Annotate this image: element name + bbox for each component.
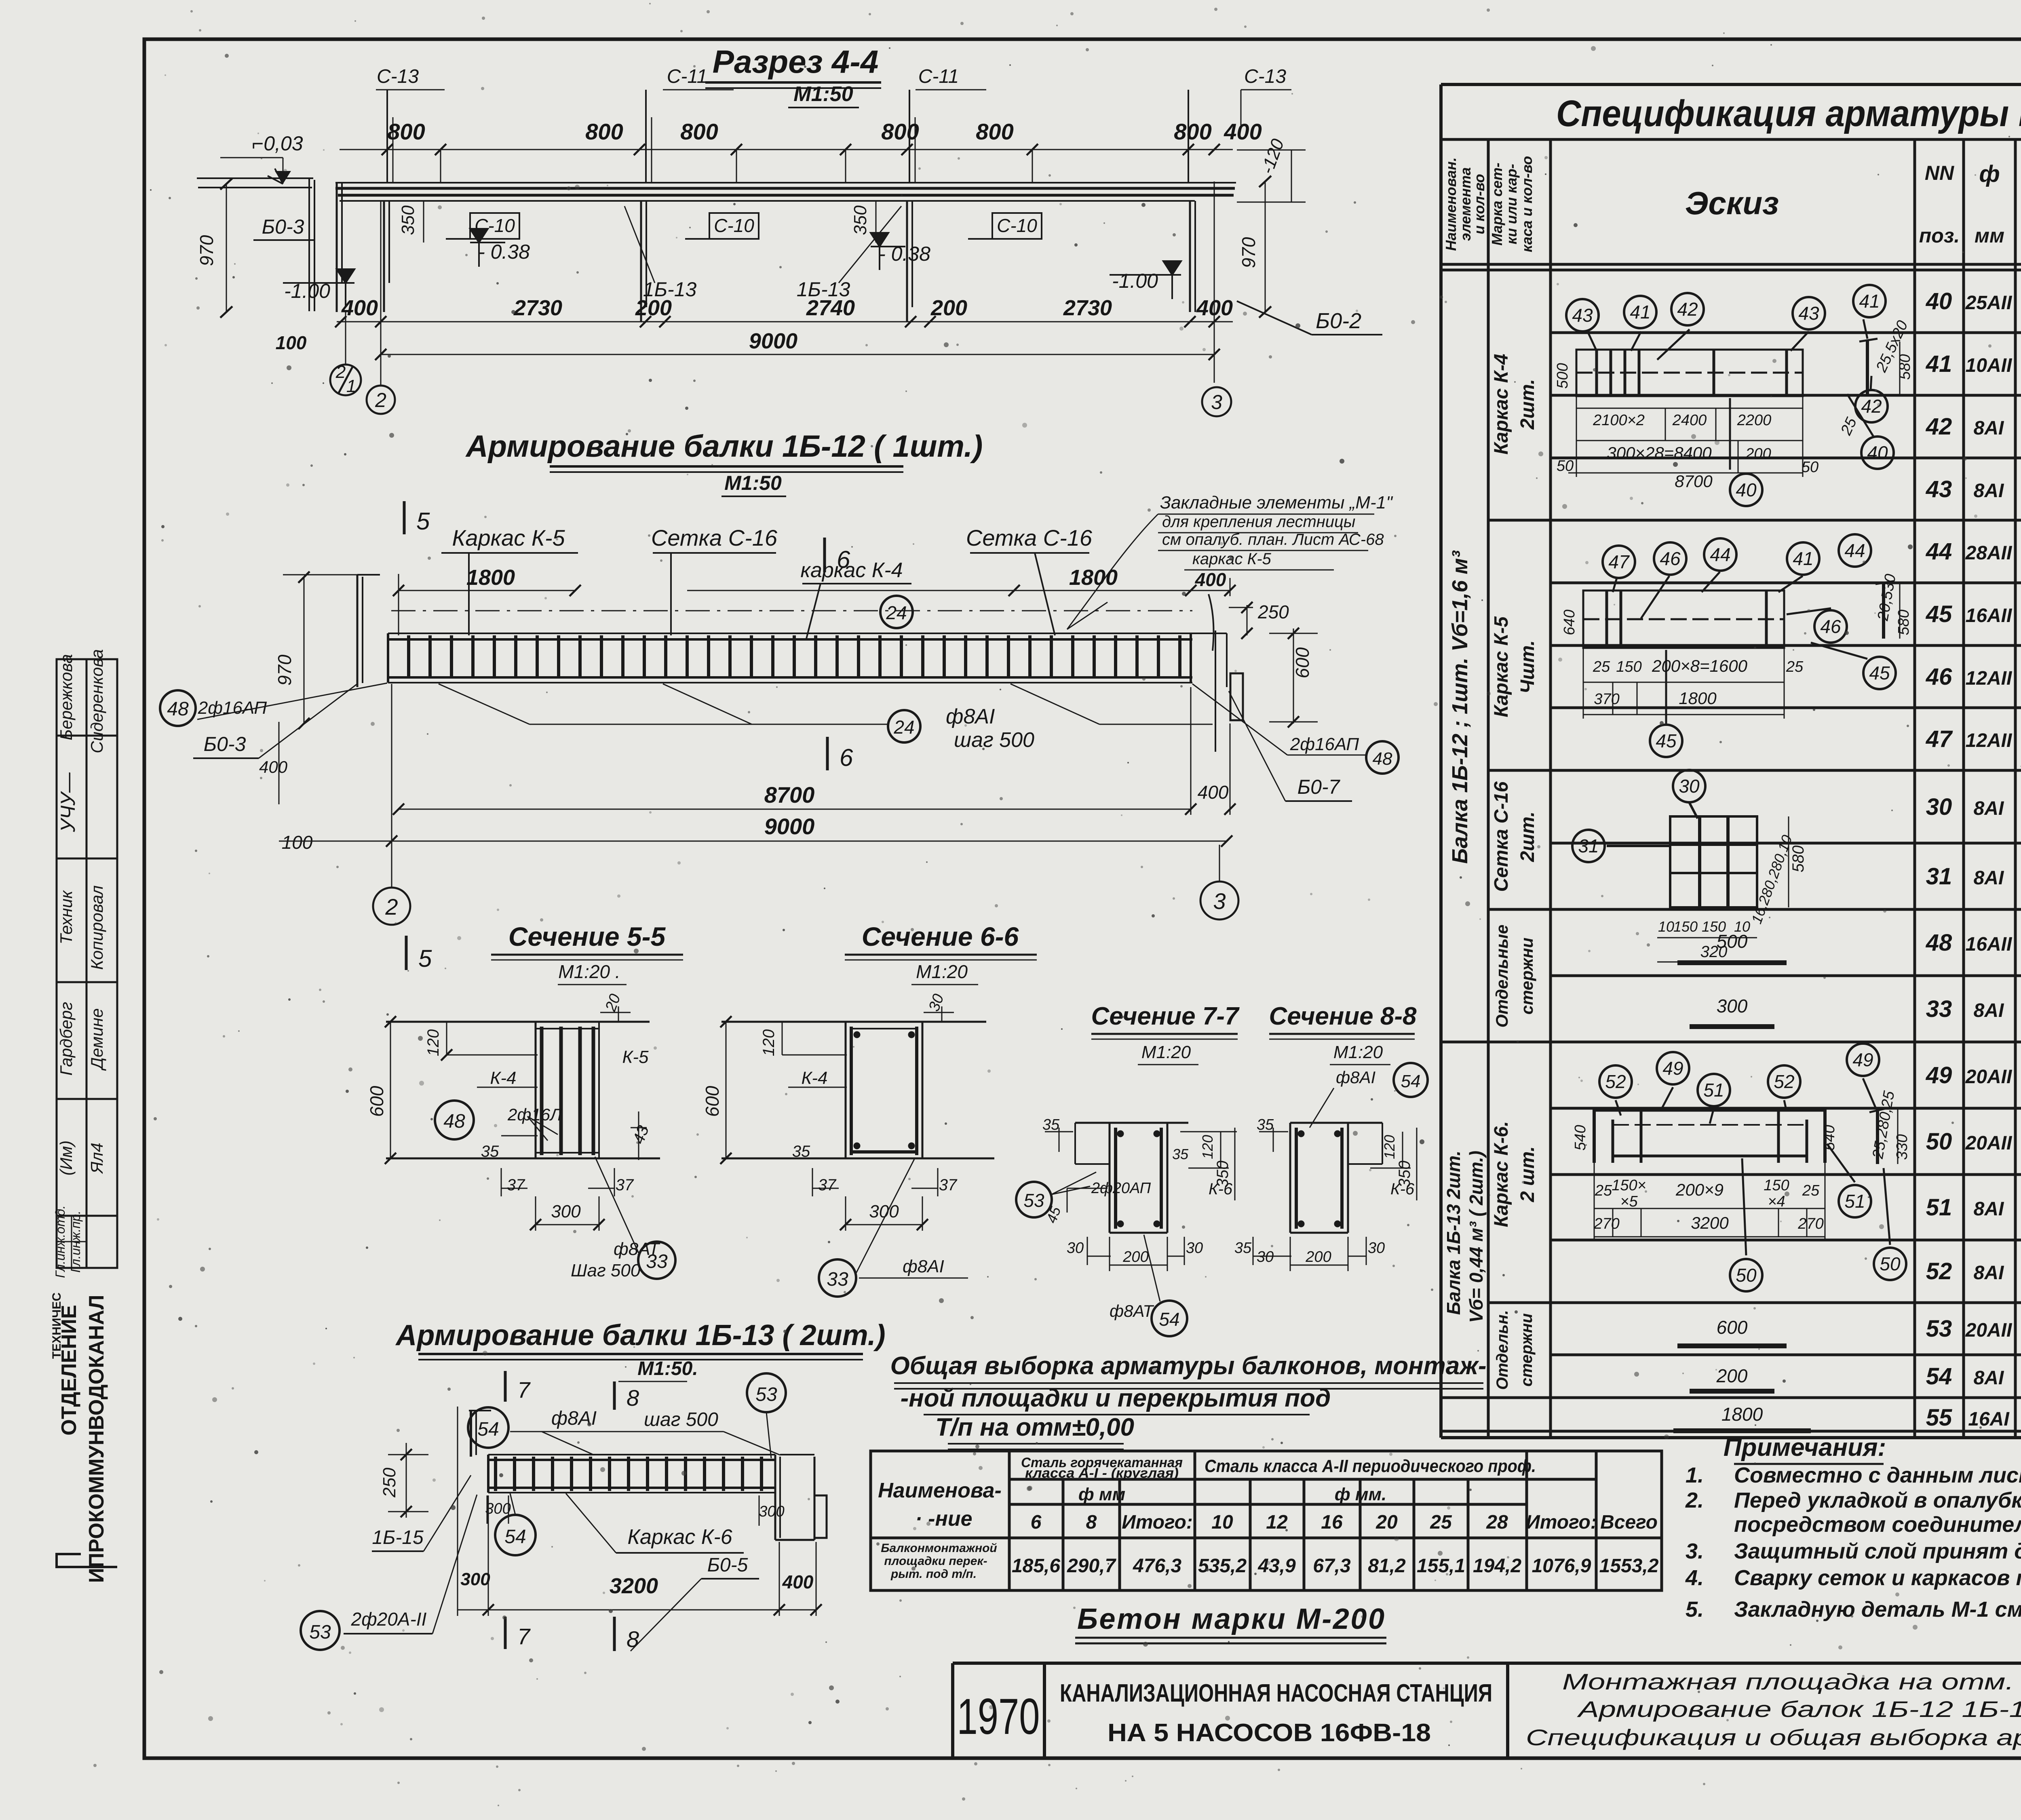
sketch K-5 dimensions bbox=[1561, 573, 1912, 708]
svg-text:600: 600 bbox=[702, 1086, 723, 1117]
svg-text:540: 540 bbox=[1821, 1125, 1838, 1150]
svg-text:Армирование балок 1Б-12 1Б-13: Армирование балок 1Б-12 1Б-13 bbox=[1577, 1696, 2021, 1722]
svg-text:Итого:: Итого: bbox=[1526, 1512, 1597, 1533]
svg-text:12: 12 bbox=[1266, 1512, 1288, 1533]
svg-text:КАНАЛИЗАЦИОННАЯ НАСОСНАЯ СТА: КАНАЛИЗАЦИОННАЯ НАСОСНАЯ СТАНЦИЯ bbox=[1060, 1679, 1492, 1707]
svg-text:51: 51 bbox=[1844, 1191, 1865, 1212]
sketch K-6 position circles bbox=[1599, 1044, 1906, 1291]
sketch C-16 dimensions bbox=[1658, 833, 1807, 961]
svg-text:класса А-I - (круглая): класса А-I - (круглая) bbox=[1025, 1466, 1179, 1481]
svg-text:44: 44 bbox=[1926, 538, 1952, 565]
svg-text:Vб= 0,44 м³ ( 2шт.): Vб= 0,44 м³ ( 2шт.) bbox=[1466, 1151, 1487, 1323]
svg-text:1553,2: 1553,2 bbox=[1599, 1555, 1659, 1577]
svg-text:Гардберг: Гардберг bbox=[57, 1002, 76, 1076]
svg-text:10: 10 bbox=[1658, 918, 1674, 935]
sketch mesh C-16 bbox=[1607, 802, 1757, 907]
svg-text:200: 200 bbox=[635, 296, 672, 320]
svg-text:540: 540 bbox=[1572, 1125, 1589, 1150]
svg-text:49: 49 bbox=[1852, 1049, 1873, 1070]
svg-text:50: 50 bbox=[1736, 1265, 1757, 1286]
svg-text:25: 25 bbox=[1837, 415, 1861, 438]
svg-text:30: 30 bbox=[1257, 1248, 1274, 1265]
svg-text:400: 400 bbox=[1224, 119, 1262, 144]
svg-text:М1:20 .: М1:20 . bbox=[558, 961, 620, 982]
svg-text:300: 300 bbox=[551, 1202, 581, 1221]
svg-text:300×28=8400: 300×28=8400 bbox=[1607, 443, 1712, 462]
right end details bbox=[1209, 594, 1243, 752]
svg-text:2100×2: 2100×2 bbox=[1593, 412, 1645, 429]
specification table grid bbox=[1441, 84, 2021, 1438]
svg-text:рыт. под т/п.: рыт. под т/п. bbox=[890, 1567, 977, 1581]
svg-text:стержни: стержни bbox=[1517, 938, 1536, 1015]
svg-text:Каркас К-5: Каркас К-5 bbox=[452, 525, 565, 550]
svg-text:К-4: К-4 bbox=[490, 1068, 516, 1088]
svg-text:37: 37 bbox=[818, 1176, 837, 1194]
section markers 7 8 bottom bbox=[505, 1617, 614, 1651]
svg-text:М1:20: М1:20 bbox=[1141, 1042, 1191, 1062]
svg-text:Итого:: Итого: bbox=[1122, 1512, 1193, 1533]
svg-text:3: 3 bbox=[1211, 391, 1222, 413]
svg-text:350: 350 bbox=[1214, 1161, 1232, 1188]
svg-text:200: 200 bbox=[930, 296, 967, 320]
sketch frame K-5 bbox=[1583, 572, 1894, 723]
row group labels (rotated) bbox=[1443, 354, 1538, 1390]
svg-text:48: 48 bbox=[1373, 749, 1392, 769]
svg-text:каркас К-4: каркас К-4 bbox=[800, 559, 903, 582]
svg-text:8700: 8700 bbox=[764, 782, 815, 808]
svg-text:200: 200 bbox=[1305, 1248, 1331, 1265]
svg-text:500: 500 bbox=[1554, 363, 1571, 388]
svg-text:194,2: 194,2 bbox=[1473, 1555, 1521, 1577]
svg-text:31: 31 bbox=[1926, 863, 1952, 890]
svg-text:Гл.инж.отд.: Гл.инж.отд. bbox=[53, 1205, 68, 1278]
svg-text:250: 250 bbox=[1257, 601, 1289, 622]
svg-text:3200: 3200 bbox=[610, 1574, 658, 1598]
svg-text:25: 25 bbox=[1430, 1512, 1452, 1533]
svg-text:ки или кар-: ки или кар- bbox=[1503, 164, 1520, 244]
svg-text:- 0.38: - 0.38 bbox=[478, 240, 530, 263]
svg-text:370: 370 bbox=[1594, 691, 1619, 708]
svg-text:ф8АI: ф8АI bbox=[1336, 1068, 1375, 1087]
svg-text:2ф20А-II: 2ф20А-II bbox=[351, 1609, 427, 1630]
svg-text:46: 46 bbox=[1660, 548, 1681, 569]
position circle 54 (section 8-8 top) bbox=[1394, 1063, 1428, 1097]
svg-text:43: 43 bbox=[1926, 476, 1952, 502]
svg-text:×5: ×5 bbox=[1620, 1193, 1638, 1210]
svg-text:Наименован.: Наименован. bbox=[1443, 157, 1459, 251]
section 5-5 cut bbox=[386, 1022, 660, 1158]
svg-text:155,1: 155,1 bbox=[1417, 1555, 1465, 1577]
svg-text:Армирование балки 1Б-13 ( 2ш: Армирование балки 1Б-13 ( 2шт.) bbox=[395, 1319, 885, 1352]
svg-text:Демине: Демине bbox=[87, 1008, 106, 1071]
sketch K-4 dimensions bbox=[1554, 318, 1913, 491]
svg-text:53: 53 bbox=[1023, 1190, 1044, 1211]
svg-text:Сечение 6-6: Сечение 6-6 bbox=[862, 922, 1019, 951]
svg-text:1800: 1800 bbox=[1721, 1404, 1763, 1425]
svg-text:25: 25 bbox=[1802, 1182, 1820, 1199]
embedded parts note bbox=[1160, 493, 1393, 568]
svg-text:28: 28 bbox=[1486, 1512, 1508, 1533]
svg-text:20: 20 bbox=[1375, 1512, 1398, 1533]
svg-text:С-11: С-11 bbox=[918, 66, 959, 87]
svg-text:48: 48 bbox=[167, 698, 189, 720]
svg-text:640: 640 bbox=[1561, 609, 1578, 635]
svg-text:535,2: 535,2 bbox=[1198, 1555, 1247, 1577]
svg-text:52: 52 bbox=[1926, 1258, 1952, 1284]
bottom dimension line 300 3200 400 bbox=[458, 1407, 822, 1616]
svg-text:Каркас К-6.: Каркас К-6. bbox=[1491, 1121, 1512, 1227]
general steel take-off title bbox=[890, 1352, 1486, 1441]
svg-text:NN: NN bbox=[1925, 162, 1954, 184]
svg-text:120: 120 bbox=[760, 1029, 778, 1057]
svg-text:6: 6 bbox=[1031, 1512, 1042, 1533]
svg-text:×4: ×4 bbox=[1768, 1193, 1785, 1210]
svg-text:Каркас К-6: Каркас К-6 bbox=[627, 1525, 732, 1549]
svg-text:81,2: 81,2 bbox=[1368, 1555, 1406, 1577]
svg-text:8: 8 bbox=[627, 1385, 639, 1411]
specification table header bbox=[1443, 86, 2021, 266]
svg-text:поз.: поз. bbox=[1919, 224, 1960, 247]
sketch C-16 position circles bbox=[1572, 770, 1705, 862]
svg-text:50: 50 bbox=[1926, 1128, 1952, 1155]
svg-text:40: 40 bbox=[1867, 442, 1888, 463]
svg-text:800: 800 bbox=[585, 119, 623, 144]
svg-text:580: 580 bbox=[1895, 609, 1912, 635]
svg-text:Каркас К-4: Каркас К-4 bbox=[1491, 354, 1512, 454]
svg-text:-1.00: -1.00 bbox=[1112, 270, 1158, 292]
svg-text:300: 300 bbox=[485, 1500, 511, 1517]
svg-text:Общая выборка арматуры балконо: Общая выборка арматуры балконов, монтаж- bbox=[890, 1352, 1486, 1380]
svg-text:3200: 3200 bbox=[1691, 1213, 1729, 1232]
svg-text:стержни: стержни bbox=[1518, 1313, 1536, 1386]
svg-text:476,3: 476,3 bbox=[1133, 1555, 1181, 1577]
svg-text:43,9: 43,9 bbox=[1257, 1555, 1296, 1577]
section 8-8 dims bbox=[1253, 1128, 1417, 1271]
svg-text:45: 45 bbox=[1869, 662, 1890, 683]
svg-text:ф мм: ф мм bbox=[1078, 1485, 1125, 1504]
svg-text:30: 30 bbox=[1926, 794, 1952, 820]
svg-text:350: 350 bbox=[1396, 1161, 1413, 1188]
svg-text:1800: 1800 bbox=[1069, 565, 1118, 590]
svg-text:300: 300 bbox=[759, 1503, 784, 1520]
svg-text:50: 50 bbox=[1557, 458, 1574, 475]
svg-text:16АII: 16АII bbox=[1966, 934, 2013, 955]
svg-text:Защитный слой принят для б: Защитный слой принят для балок- 25мм, дл… bbox=[1734, 1539, 2021, 1563]
axis circles 2 3 (beam 1B-12) bbox=[373, 888, 410, 925]
left strip department rotated caption bbox=[50, 1293, 108, 1583]
svg-text:5: 5 bbox=[418, 945, 432, 972]
svg-text:Балка 1Б-12 ; 1шт. Vб=1,6 м³: Балка 1Б-12 ; 1шт. Vб=1,6 м³ bbox=[1448, 550, 1472, 864]
svg-text:2740: 2740 bbox=[806, 296, 855, 320]
svg-text:20АII: 20АII bbox=[1965, 1066, 2013, 1088]
svg-text:49: 49 bbox=[1926, 1062, 1952, 1088]
beam labels 1B-13 bbox=[643, 278, 850, 301]
svg-text:Армирование балки 1Б-12 ( 1шт.: Армирование балки 1Б-12 ( 1шт.) bbox=[465, 429, 983, 464]
frame and mesh labels bbox=[452, 525, 1093, 582]
svg-text:48: 48 bbox=[1926, 930, 1952, 956]
svg-text:25АII: 25АII bbox=[1965, 292, 2013, 314]
svg-text:50: 50 bbox=[1802, 459, 1818, 476]
svg-text:2ф20АП: 2ф20АП bbox=[1091, 1180, 1151, 1197]
svg-text:9000: 9000 bbox=[749, 329, 797, 353]
svg-text:9000: 9000 bbox=[764, 814, 815, 839]
svg-text:30: 30 bbox=[1067, 1240, 1084, 1257]
upper dimensions 1800 400 bbox=[393, 574, 1236, 635]
svg-text:33: 33 bbox=[827, 1269, 848, 1290]
section 4-4 beam slab lines bbox=[197, 90, 1236, 385]
position circle 53 lower + 2f20A-II bbox=[301, 1611, 340, 1650]
svg-text:ф8АТ: ф8АТ bbox=[1110, 1301, 1154, 1320]
svg-text:Всего: Всего bbox=[1600, 1512, 1658, 1533]
svg-text:ИПРОКОММУНВОДОКАНАЛ: ИПРОКОММУНВОДОКАНАЛ bbox=[85, 1295, 108, 1583]
svg-text:Б0-3: Б0-3 bbox=[204, 733, 246, 755]
position circles 53 54 (section 7-7) bbox=[1016, 1182, 1052, 1217]
svg-text:С-10: С-10 bbox=[714, 215, 754, 236]
svg-text:1800: 1800 bbox=[466, 565, 515, 590]
svg-text:35: 35 bbox=[1042, 1116, 1060, 1133]
notes list bbox=[1685, 1463, 2021, 1622]
svg-text:20АII: 20АII bbox=[1965, 1132, 2013, 1154]
position circle 54 lower bbox=[495, 1515, 536, 1555]
beam 1B-13 right step bbox=[775, 1455, 827, 1540]
svg-text:500: 500 bbox=[1717, 931, 1748, 952]
svg-text:12АII: 12АII bbox=[1966, 730, 2013, 751]
svg-text:200×9: 200×9 bbox=[1675, 1180, 1724, 1199]
svg-text:8АI: 8АI bbox=[1974, 480, 2004, 502]
svg-text:54: 54 bbox=[1926, 1363, 1952, 1390]
svg-text:Эскиз: Эскиз bbox=[1685, 185, 1779, 221]
title block object name bbox=[1060, 1679, 1492, 1747]
section 6-6 cut bbox=[721, 1022, 994, 1158]
svg-text:2730: 2730 bbox=[513, 296, 562, 320]
svg-text:25: 25 bbox=[1786, 658, 1804, 675]
mesh labels C-13 C-11 bbox=[377, 66, 1286, 87]
svg-text:35: 35 bbox=[1234, 1240, 1252, 1257]
svg-text:шаг 500: шаг 500 bbox=[954, 728, 1034, 752]
svg-text:400: 400 bbox=[1198, 782, 1229, 803]
svg-text:54: 54 bbox=[504, 1526, 526, 1548]
svg-text:150: 150 bbox=[1673, 918, 1698, 935]
svg-text:Бетон марки М-200: Бетон марки М-200 bbox=[1077, 1603, 1384, 1635]
svg-text:37: 37 bbox=[616, 1176, 634, 1194]
svg-text:6: 6 bbox=[840, 744, 853, 771]
beam 1B-12 left wall bbox=[357, 575, 380, 687]
svg-text:3.: 3. bbox=[1686, 1539, 1704, 1563]
svg-text:Сетка С-16: Сетка С-16 bbox=[1491, 781, 1512, 892]
svg-text:1076,9: 1076,9 bbox=[1532, 1555, 1591, 1577]
section 6-6 dims bbox=[720, 1006, 954, 1231]
svg-text:53: 53 bbox=[1926, 1316, 1952, 1342]
svg-text:800: 800 bbox=[680, 119, 718, 144]
svg-text:44: 44 bbox=[1710, 544, 1730, 565]
svg-text:5.: 5. bbox=[1686, 1597, 1704, 1622]
svg-text:52: 52 bbox=[1605, 1071, 1626, 1092]
svg-text:Сечение 8-8: Сечение 8-8 bbox=[1269, 1002, 1417, 1030]
position circles 54 53 top bbox=[468, 1407, 508, 1448]
svg-text:400: 400 bbox=[259, 757, 288, 776]
svg-text:150: 150 bbox=[1616, 658, 1641, 675]
svg-text:25: 25 bbox=[1595, 1182, 1612, 1199]
svg-text:Спецификация и общая выборк: Спецификация и общая выборка арматуры bbox=[1526, 1725, 2021, 1750]
left signature strip table bbox=[57, 659, 117, 1268]
svg-text:Гл.инж.пр.: Гл.инж.пр. bbox=[68, 1211, 83, 1273]
svg-text:· -ние: · -ние bbox=[915, 1507, 972, 1531]
svg-text:35: 35 bbox=[481, 1143, 499, 1160]
svg-text:2: 2 bbox=[375, 389, 386, 411]
svg-text:43: 43 bbox=[1798, 303, 1819, 324]
svg-text:С-13: С-13 bbox=[1244, 66, 1286, 87]
svg-text:Закладные элементы „М-1": Закладные элементы „М-1" bbox=[1160, 493, 1393, 512]
svg-text:10: 10 bbox=[1211, 1512, 1233, 1533]
svg-text:42: 42 bbox=[1677, 299, 1698, 320]
svg-text:Бережкова: Бережкова bbox=[57, 654, 76, 740]
svg-text:49: 49 bbox=[1662, 1058, 1683, 1079]
svg-text:300: 300 bbox=[460, 1569, 490, 1589]
svg-text:31: 31 bbox=[1578, 835, 1599, 856]
svg-text:К-5: К-5 bbox=[622, 1047, 649, 1067]
svg-text:1970: 1970 bbox=[957, 1689, 1040, 1745]
svg-text:8АI: 8АI bbox=[1974, 1198, 2004, 1220]
svg-text:площадки перек-: площадки перек- bbox=[884, 1554, 987, 1568]
svg-text:400: 400 bbox=[782, 1571, 814, 1592]
beam 1B-12 body bbox=[388, 611, 1227, 683]
svg-text:Марка сет-: Марка сет- bbox=[1489, 162, 1505, 245]
svg-text:43: 43 bbox=[630, 1123, 653, 1146]
svg-text:54: 54 bbox=[1159, 1309, 1179, 1330]
svg-text:1Б-15: 1Б-15 bbox=[372, 1527, 424, 1548]
svg-text:970: 970 bbox=[1238, 237, 1259, 268]
svg-text:350: 350 bbox=[398, 205, 418, 235]
svg-text:290,7: 290,7 bbox=[1067, 1555, 1116, 1577]
svg-text:120: 120 bbox=[1381, 1135, 1398, 1159]
svg-text:4.: 4. bbox=[1685, 1566, 1704, 1590]
svg-text:Закладную деталь М-1 смотр: Закладную деталь М-1 смотреть на листе А… bbox=[1734, 1597, 2021, 1622]
svg-text:970: 970 bbox=[274, 654, 295, 685]
svg-text:Спецификация арматуры на 1 эл: Спецификация арматуры на 1 элемент bbox=[1556, 93, 2021, 134]
svg-text:35: 35 bbox=[1172, 1146, 1189, 1162]
svg-text:1.: 1. bbox=[1686, 1463, 1704, 1487]
svg-text:2730: 2730 bbox=[1063, 296, 1112, 320]
svg-text:53: 53 bbox=[755, 1384, 777, 1405]
svg-text:400: 400 bbox=[1196, 296, 1233, 320]
svg-text:51: 51 bbox=[1926, 1194, 1952, 1221]
beam 1B-12 stirrups bbox=[393, 635, 1190, 677]
svg-text:8АI: 8АI bbox=[1974, 418, 2004, 439]
svg-text:43: 43 bbox=[1572, 305, 1593, 326]
svg-text:42: 42 bbox=[1926, 413, 1952, 440]
svg-text:30: 30 bbox=[1679, 776, 1700, 797]
sketch frame K-6 bbox=[1594, 1078, 1890, 1255]
svg-text:45: 45 bbox=[1656, 730, 1677, 751]
svg-text:250: 250 bbox=[380, 1468, 399, 1498]
svg-text:7: 7 bbox=[517, 1377, 531, 1402]
svg-text:44: 44 bbox=[1844, 540, 1865, 561]
svg-text:600: 600 bbox=[1717, 1317, 1748, 1338]
svg-text:2200: 2200 bbox=[1737, 412, 1772, 429]
svg-text:330: 330 bbox=[1894, 1134, 1911, 1160]
svg-text:Наименова-: Наименова- bbox=[878, 1479, 1002, 1502]
svg-text:К-4: К-4 bbox=[801, 1068, 827, 1088]
svg-text:8700: 8700 bbox=[1675, 472, 1713, 491]
svg-text:2 шт.: 2 шт. bbox=[1517, 1146, 1538, 1202]
beam 1B-13 body bbox=[488, 1455, 775, 1493]
svg-text:16АI: 16АI bbox=[1968, 1409, 2010, 1430]
svg-text:24: 24 bbox=[886, 602, 907, 623]
svg-text:300: 300 bbox=[1717, 995, 1748, 1017]
svg-text:33: 33 bbox=[1926, 996, 1952, 1022]
svg-text:200×8=1600: 200×8=1600 bbox=[1652, 656, 1748, 675]
svg-text:8АI: 8АI bbox=[1974, 798, 2004, 819]
svg-text:Б0-3: Б0-3 bbox=[262, 215, 304, 238]
svg-text:600: 600 bbox=[1292, 647, 1313, 678]
steel take-off table grid bbox=[871, 1451, 1662, 1590]
section 4-4 bottom dimensions bbox=[335, 316, 1233, 360]
sketch K-6 dimensions bbox=[1572, 1089, 1911, 1232]
svg-text:2ф16АП: 2ф16АП bbox=[1290, 734, 1359, 754]
section markers 7 8 top bbox=[505, 1371, 614, 1410]
svg-text:120: 120 bbox=[1199, 1135, 1216, 1159]
svg-text:ф мм.: ф мм. bbox=[1335, 1485, 1386, 1504]
svg-text:52: 52 bbox=[1774, 1071, 1794, 1092]
svg-text:Отдельные: Отдельные bbox=[1492, 925, 1511, 1028]
svg-text:7: 7 bbox=[517, 1624, 531, 1649]
svg-text:200: 200 bbox=[1745, 445, 1771, 462]
svg-text:(Им): (Им) bbox=[57, 1141, 76, 1176]
svg-text:16АII: 16АII bbox=[1966, 605, 2013, 626]
svg-text:Разрез 4-4: Разрез 4-4 bbox=[713, 44, 879, 80]
svg-text:28АII: 28АII bbox=[1965, 542, 2013, 564]
svg-text:800: 800 bbox=[881, 119, 919, 144]
svg-text:800: 800 bbox=[387, 119, 425, 144]
350 dimensions bbox=[398, 205, 870, 235]
svg-text:100: 100 bbox=[276, 332, 307, 353]
svg-text:Копировал: Копировал bbox=[87, 886, 106, 970]
svg-text:Б0-5: Б0-5 bbox=[707, 1554, 748, 1576]
svg-text:54: 54 bbox=[477, 1419, 499, 1440]
svg-text:Сечение 7-7: Сечение 7-7 bbox=[1091, 1002, 1240, 1030]
svg-text:⌐0,03: ⌐0,03 bbox=[252, 132, 303, 155]
svg-text:ф: ф bbox=[1979, 161, 2000, 187]
elevation marks -0.38 bbox=[478, 240, 930, 265]
svg-text:20: 20 bbox=[602, 992, 624, 1014]
svg-text:37: 37 bbox=[939, 1176, 958, 1194]
svg-text:М1:50: М1:50 bbox=[793, 82, 853, 106]
svg-text:580: 580 bbox=[1789, 846, 1807, 873]
svg-text:Сетка С-16: Сетка С-16 bbox=[651, 525, 778, 550]
svg-text:8АI: 8АI bbox=[1974, 867, 2004, 889]
mesh label boxes C-10 bbox=[446, 213, 1042, 239]
svg-text:шаг 500: шаг 500 bbox=[644, 1409, 718, 1430]
elevation marks -1.00 bbox=[284, 270, 1158, 302]
svg-text:Б0-7: Б0-7 bbox=[1297, 776, 1341, 798]
beam 1B-13 stirrups bbox=[491, 1457, 774, 1491]
sketch frame K-4 bbox=[1576, 319, 1878, 470]
svg-text:2400: 2400 bbox=[1672, 412, 1707, 429]
svg-text:55: 55 bbox=[1926, 1405, 1952, 1431]
svg-text:Сечение 5-5: Сечение 5-5 bbox=[508, 922, 666, 951]
svg-text:10АII: 10АII bbox=[1966, 355, 2013, 376]
section 4-4 top dimension row 800 bbox=[340, 144, 1233, 155]
svg-text:35: 35 bbox=[792, 1143, 810, 1160]
svg-text:270: 270 bbox=[1797, 1215, 1823, 1232]
specification table data bbox=[1926, 288, 2021, 1431]
svg-text:67,3: 67,3 bbox=[1313, 1555, 1351, 1577]
svg-text:Чшт.: Чшт. bbox=[1517, 640, 1538, 694]
position circle 33 (section 6-6) bbox=[819, 1259, 856, 1297]
svg-text:С-13: С-13 bbox=[377, 66, 419, 87]
svg-text:100: 100 bbox=[282, 832, 313, 853]
section 8-8 cut bbox=[1290, 1123, 1382, 1233]
